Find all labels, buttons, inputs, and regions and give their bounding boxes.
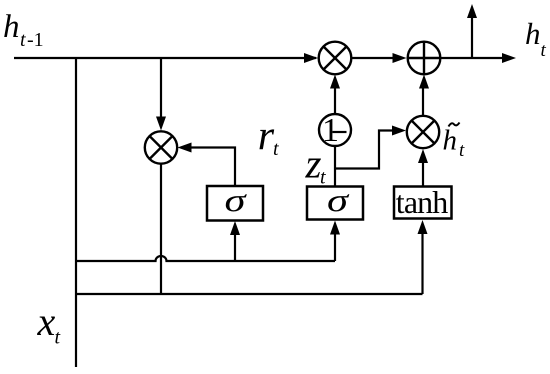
arrow left into reset multiplier from sigma-r xyxy=(178,143,192,153)
svg-text:t: t xyxy=(20,29,26,51)
arrow up branch top xyxy=(467,4,477,18)
svg-text:t: t xyxy=(55,327,61,349)
wire: multiplier1 to adder xyxy=(352,57,395,59)
arrow right into candidate multiplier xyxy=(392,126,406,136)
label x(t) xyxy=(37,299,61,349)
wire: sigma-r output elbow to reset multiplier xyxy=(191,148,235,187)
label z(t) xyxy=(305,141,327,189)
wire: bus2 end up into tanh box xyxy=(421,230,423,294)
wire: bus1 up into sigma-r box xyxy=(234,232,236,261)
wire: h(t) up branch xyxy=(471,15,473,58)
label h-tilde(t) xyxy=(443,123,466,162)
multiplier circle (reset gate) xyxy=(145,131,177,163)
tanh box xyxy=(394,184,452,220)
svg-text:t: t xyxy=(273,138,279,160)
wire: 1-minus output up to multiplier 1 xyxy=(334,85,336,114)
sigma box Z xyxy=(307,183,363,220)
wire: h(t-1)/x(t) vertical bus at x=76.5 xyxy=(75,58,77,367)
wire: bus2 horizontal xyxy=(76,293,423,295)
wire: tanh output up to candidate multiplier xyxy=(422,159,424,187)
arrow up into sigma-z box xyxy=(330,221,340,235)
svg-text:t: t xyxy=(320,167,326,189)
sigma box R xyxy=(207,183,263,221)
1-minus circle xyxy=(319,112,351,149)
wire: bus1 end up into sigma-z box xyxy=(334,231,336,261)
adder circle xyxy=(408,42,441,75)
arrow at right end (h t output) xyxy=(502,53,516,63)
svg-text:t: t xyxy=(541,40,547,61)
wire: branch down from top line to reset multiplier xyxy=(160,58,162,118)
wire: reset multiplier output down to bus2 xyxy=(160,163,162,294)
candidate multiplier circle xyxy=(407,116,439,148)
arrow into multiplier1 from left xyxy=(304,53,318,63)
svg-text:h: h xyxy=(3,9,20,45)
svg-text:z: z xyxy=(305,141,322,187)
wire: top h line left segment xyxy=(14,57,316,59)
svg-text:σ: σ xyxy=(225,183,248,219)
label h(t) xyxy=(525,16,547,61)
label r(t) xyxy=(258,114,279,161)
svg-text:σ: σ xyxy=(327,183,350,219)
wire: adder output right segment xyxy=(441,57,504,59)
svg-text:h: h xyxy=(443,125,458,157)
svg-text:-1: -1 xyxy=(27,29,44,51)
wire: sigma-z output up to 1-minus circle xyxy=(334,146,336,187)
svg-text:tanh: tanh xyxy=(396,184,449,220)
svg-text:x: x xyxy=(37,299,56,344)
arrow up into tanh box xyxy=(418,220,428,234)
wire: bus1 horizontal with hop over x=161 xyxy=(76,256,335,261)
label h(t-1) xyxy=(3,9,44,51)
arrowheads xyxy=(156,4,516,235)
wire: z branch elbow to candidate multiplier xyxy=(335,131,394,169)
svg-text:t: t xyxy=(459,140,465,161)
arrow up into sigma-r box xyxy=(230,221,240,235)
multiplier circle U1 (1-z path) xyxy=(319,42,352,75)
svg-text:h: h xyxy=(525,16,541,51)
arrow into adder from multiplier1 xyxy=(393,53,407,63)
arrow up into adder from candidate xyxy=(419,75,429,89)
arrow down into reset multiplier xyxy=(156,117,166,131)
arrow up into candidate from tanh xyxy=(418,149,428,163)
arrow up into multiplier1 from 1-minus xyxy=(330,75,340,89)
wire: candidate multiplier up to adder xyxy=(422,85,424,116)
svg-text:1: 1 xyxy=(322,112,339,149)
